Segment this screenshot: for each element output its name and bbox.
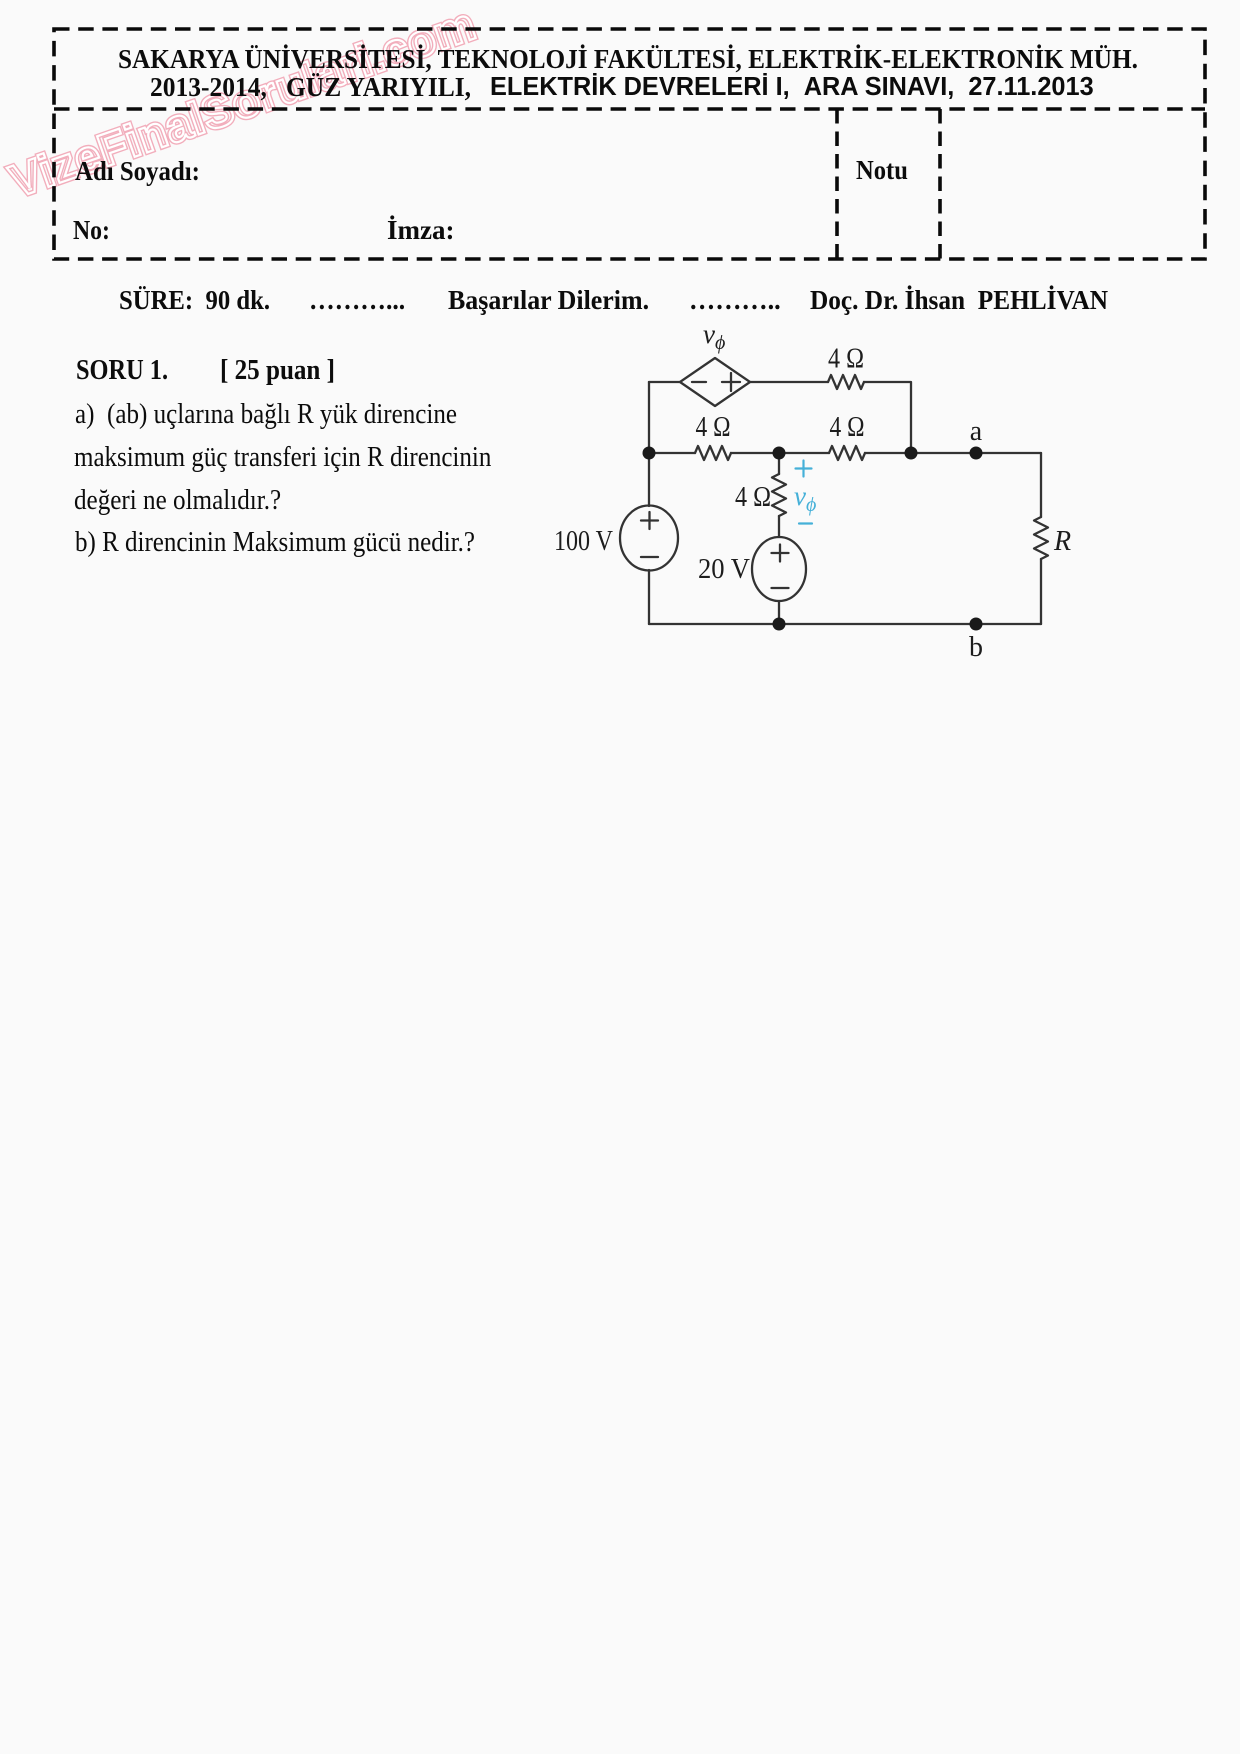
dependent source diamond bbox=[680, 358, 750, 406]
minus sign inside 100V source bbox=[641, 556, 658, 558]
svg-text:4 Ω: 4 Ω bbox=[828, 344, 864, 375]
wire bottom bbox=[649, 623, 1041, 625]
node dot bottom middle bbox=[773, 618, 786, 631]
header line 1 bbox=[118, 45, 1138, 73]
svg-text:4 Ω: 4 Ω bbox=[735, 482, 771, 513]
minus sign inside diamond bbox=[692, 381, 706, 383]
dashed header boxes bbox=[0, 0, 1240, 300]
svg-text:b: b bbox=[969, 632, 983, 663]
voltage source 20V circle bbox=[752, 537, 806, 601]
vertical divider notu right bbox=[938, 109, 942, 259]
resistor 4ohm middle vertical zigzag bbox=[772, 474, 786, 516]
circuit schematic bbox=[0, 0, 1240, 800]
svg-text:R: R bbox=[1053, 526, 1071, 557]
svg-text:100 V: 100 V bbox=[554, 526, 613, 557]
blue plus above v_phi bbox=[796, 467, 812, 469]
horizontal divider bbox=[54, 107, 1205, 111]
resistor 4ohm row2-left zigzag bbox=[695, 446, 731, 460]
svg-text:4 Ω: 4 Ω bbox=[696, 412, 731, 443]
node dot row2 left bbox=[643, 447, 656, 460]
İmza: bbox=[387, 217, 454, 244]
vertical divider notu left bbox=[835, 109, 839, 259]
node dot row2 middle bbox=[773, 447, 786, 460]
resistor R zigzag bbox=[1034, 517, 1048, 559]
header line 2 sans part bbox=[490, 75, 1094, 101]
header line 2 serif part bbox=[150, 73, 471, 101]
svg-text:vϕ: vϕ bbox=[794, 481, 816, 516]
plus sign inside 100V source bbox=[641, 519, 658, 521]
wire row2 right to node a and R corner bbox=[865, 452, 1041, 454]
minus sign inside 20V source bbox=[772, 587, 789, 589]
watermark VizeFinalSorulari.com bbox=[4, 0, 481, 204]
wire top-left stub bbox=[649, 381, 680, 383]
node a dot bbox=[970, 447, 983, 460]
wire R branch lower bbox=[1040, 559, 1042, 624]
wire mid branch upper bbox=[778, 453, 780, 474]
wire 20V source to bottom bbox=[778, 601, 780, 624]
wire mid branch to 20V source bbox=[778, 516, 780, 537]
SORU 1 bbox=[76, 357, 168, 385]
plus sign inside 20V source bbox=[772, 552, 789, 554]
svg-text:vϕ: vϕ bbox=[703, 319, 725, 354]
node dot row2 right bbox=[905, 447, 918, 460]
Notu bbox=[856, 157, 908, 184]
outer dashed box bbox=[54, 29, 1205, 259]
wire R branch upper bbox=[1040, 453, 1042, 517]
wire diamond right to top resistor bbox=[750, 381, 828, 383]
No: bbox=[73, 217, 110, 244]
node b dot bbox=[970, 618, 983, 631]
Adı Soyadı bbox=[75, 158, 200, 185]
wire left vertical bbox=[648, 382, 650, 506]
süre line parts bbox=[119, 287, 270, 314]
resistor 4ohm top zigzag bbox=[828, 375, 864, 389]
svg-text:4 Ω: 4 Ω bbox=[830, 412, 865, 443]
wire top resistor to corner down to row2 bbox=[864, 382, 911, 453]
blue minus below v_phi bbox=[799, 522, 812, 524]
svg-text:20 V: 20 V bbox=[698, 554, 750, 585]
voltage source 100V circle bbox=[620, 506, 678, 571]
plus sign inside diamond bbox=[722, 381, 740, 383]
wire row2 middle segment bbox=[731, 452, 829, 454]
resistor 4ohm row2-right zigzag bbox=[829, 446, 865, 460]
svg-text:a: a bbox=[970, 416, 983, 447]
wire below 100V source bbox=[648, 570, 650, 624]
wire row2 left segment bbox=[649, 452, 695, 454]
